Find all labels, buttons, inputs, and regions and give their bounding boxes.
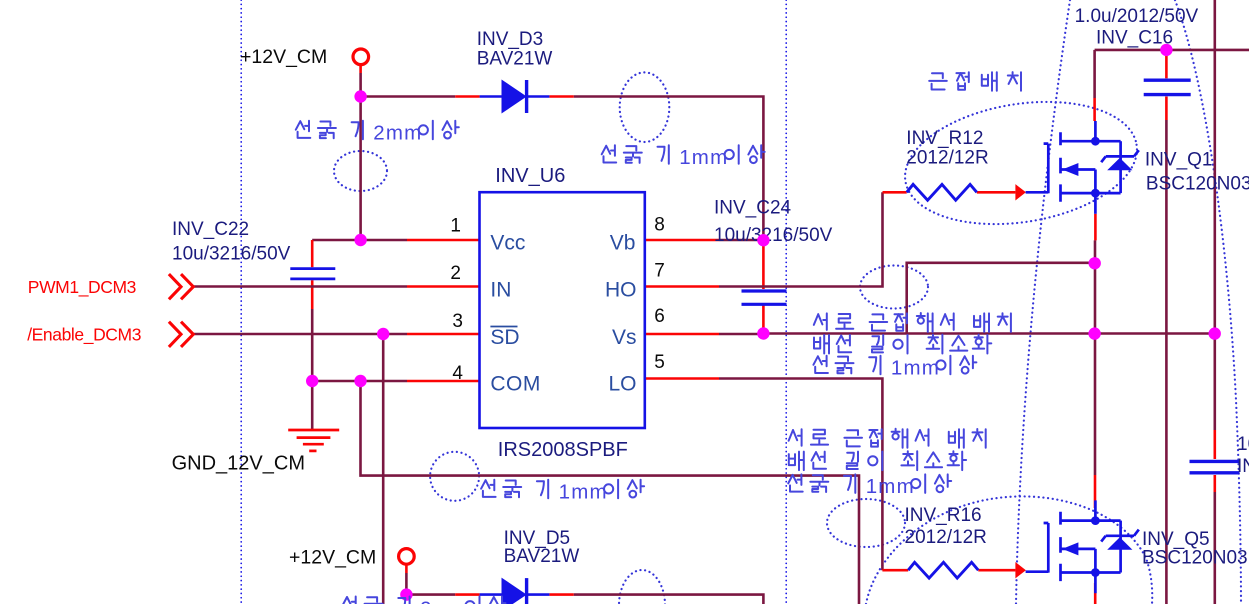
svg-text:Vcc: Vcc <box>490 232 525 255</box>
junction node 8 <box>1089 257 1101 269</box>
svg-text:/Enable_DCM3: /Enable_DCM3 <box>27 325 141 346</box>
+12V_CM terminal circle (bottom) <box>399 549 415 565</box>
wire pin6 Vs stub <box>645 333 719 336</box>
svg-text:8: 8 <box>654 215 665 236</box>
svg-text:Vb: Vb <box>610 232 636 255</box>
svg-text:1mm: 1mm <box>559 481 608 504</box>
wire COM net <box>312 380 407 383</box>
wire Q5 source down <box>1094 583 1097 604</box>
junction node 9 <box>1088 327 1100 339</box>
annotation block1 line3: line width 1mm or more <box>813 356 976 380</box>
op-amp / gate-driver IC U6 body <box>480 192 645 428</box>
svg-text:1: 1 <box>450 216 461 237</box>
wire switch node down to Q5 drain <box>1094 334 1097 475</box>
transistor Q5 INV_Q5 <box>1026 500 1139 593</box>
wire pin7 HO stub <box>645 285 719 288</box>
wire Vs loop up <box>907 263 1095 334</box>
capacitor C16 INV_C16 <box>1144 80 1191 94</box>
annotation: line width 1mm or more (near D3 net) <box>602 145 765 169</box>
dotted ellipse on COM branch wire <box>827 499 905 547</box>
wire PWM1_DCM3 to pin IN <box>194 285 408 288</box>
svg-text:10u/3216/50V: 10u/3216/50V <box>172 244 291 265</box>
input port /Enable_DCM3 <box>169 322 193 347</box>
svg-text:SD: SD <box>490 326 519 349</box>
svg-text:INV_C18: INV_C18 <box>1237 456 1249 477</box>
wire HO to R12 <box>883 191 907 194</box>
wire /Enable_DCM3 to pin SD <box>194 333 408 336</box>
wire pin8 Vb stub <box>645 239 719 242</box>
dotted partition line left <box>240 0 242 604</box>
svg-text:+12V_CM: +12V_CM <box>289 547 376 569</box>
wire D5 cathode net <box>549 593 573 596</box>
svg-text:2mm: 2mm <box>373 122 422 145</box>
svg-text:1mm: 1mm <box>891 357 940 380</box>
annotation: line width 2mm or more (bottom, clipped) <box>343 597 506 604</box>
annotation block2 line3: line width 1mm or more <box>788 474 951 498</box>
wire switch node Q1 source to Vs <box>1094 214 1097 241</box>
capacitor C22 INV_C22 <box>290 269 335 279</box>
annotation: line width 1mm or more (below IRS2008SPBF) <box>481 480 644 504</box>
wire /Enable vertical branch <box>382 334 385 604</box>
svg-text:BAV21W: BAV21W <box>504 546 580 567</box>
capacitor C18 (right edge) <box>1190 461 1240 472</box>
svg-text:INV_R12: INV_R12 <box>906 128 983 149</box>
svg-text:IRS2008SPBF: IRS2008SPBF <box>498 439 628 461</box>
dotted partition line right <box>785 0 787 604</box>
wire C16 top lead <box>1165 50 1168 78</box>
dotted ellipse (close placement) around R12 and Q1 <box>896 86 1146 239</box>
svg-text:GND_12V_CM: GND_12V_CM <box>172 452 305 474</box>
junction node 1 <box>354 90 366 102</box>
junction node 4 <box>377 328 389 340</box>
wire C16 bottom lead long drop <box>1165 97 1168 121</box>
wire D5 anode net <box>406 593 455 596</box>
annotation block1 line1: place close to each other <box>814 313 1011 332</box>
svg-text:COM: COM <box>490 373 541 396</box>
svg-text:1mm: 1mm <box>866 475 915 498</box>
svg-text:1.0u/2012/50V: 1.0u/2012/50V <box>1075 6 1199 27</box>
large dotted arc right <box>1175 0 1241 604</box>
dotted ellipse on diode D3 output wire <box>620 72 670 142</box>
svg-text:INV_U6: INV_U6 <box>495 165 565 187</box>
wire LO to R16 <box>882 569 908 572</box>
dotted ellipse around R16 and Q5 <box>866 496 1152 604</box>
svg-text:4: 4 <box>452 363 463 384</box>
annotation: place close together (근접배치) <box>929 72 1021 91</box>
svg-text:+12V_CM: +12V_CM <box>240 46 327 68</box>
svg-text:INV_R16: INV_R16 <box>905 505 982 526</box>
svg-text:INV_D3: INV_D3 <box>477 29 544 50</box>
svg-text:PWM1_DCM3: PWM1_DCM3 <box>28 277 136 298</box>
svg-text:INV_C22: INV_C22 <box>172 219 249 240</box>
wire R12 to gate arrow <box>977 191 1016 194</box>
wire right vertical bus <box>1214 0 1217 430</box>
diode D3 INV_D3 <box>480 80 550 114</box>
svg-text:2012/12R: 2012/12R <box>906 148 988 169</box>
svg-text:BSC120N03: BSC120N03 <box>1142 548 1248 569</box>
wire COM to ground <box>311 381 314 429</box>
wire +12V_CM drop to rail <box>359 65 362 74</box>
transistor Q1 INV_Q1 <box>1026 121 1139 214</box>
large dotted arc left <box>1016 0 1070 604</box>
svg-text:10u/3216/50V: 10u/3216/50V <box>714 225 833 246</box>
annotation block2 line1: place close to each other <box>789 429 986 448</box>
junction node 10 <box>1209 327 1221 339</box>
wire Vs rail <box>763 332 1214 335</box>
svg-text:2: 2 <box>450 263 461 284</box>
svg-text:1mm: 1mm <box>679 146 728 169</box>
junction node 12 <box>400 588 412 600</box>
wire C22 top lead <box>311 240 314 267</box>
+12V_CM terminal circle (top) <box>353 49 369 65</box>
red arrow into Q5 gate <box>1015 562 1026 578</box>
dotted circle below IRS2008SPBF <box>430 452 479 501</box>
wire D3 cathode net to Vb <box>549 95 573 98</box>
svg-text:Vs: Vs <box>612 326 637 349</box>
svg-text:2012/12R: 2012/12R <box>905 527 987 548</box>
wire C24 bottom lead <box>762 305 765 334</box>
svg-text:INV_C16: INV_C16 <box>1096 28 1173 49</box>
svg-text:7: 7 <box>654 261 665 282</box>
capacitor C24 INV_C24 <box>742 291 787 304</box>
wire C18 bottom lead <box>1214 475 1217 492</box>
wire +12V_CM bottom drop <box>405 564 408 574</box>
wire C24 top lead <box>762 240 765 289</box>
annotation: line width 2mm or more (top) <box>296 121 459 145</box>
ground symbol GND_12V_CM <box>288 430 339 451</box>
resistor R16 INV_R16 <box>908 562 978 578</box>
dotted circle on +12V_CM wire <box>334 151 387 191</box>
annotation block1 line2: minimize wiring length <box>814 335 991 354</box>
junction node 2 <box>354 234 366 246</box>
wire R16 to gate arrow <box>978 569 1015 572</box>
svg-text:INV_C24: INV_C24 <box>714 198 792 219</box>
svg-text:2mm: 2mm <box>420 597 469 604</box>
diode D5 INV_D5 <box>480 578 550 604</box>
annotation block2 line2: minimize wiring length <box>789 451 966 470</box>
junction node 6 <box>306 375 318 387</box>
red arrow into Q1 gate <box>1015 184 1026 200</box>
svg-text:10u/3216/50V: 10u/3216/50V <box>1237 434 1249 455</box>
wire top supply rail <box>1095 49 1249 52</box>
svg-text:IN: IN <box>490 279 511 302</box>
svg-text:6: 6 <box>654 306 665 327</box>
svg-text:3: 3 <box>452 311 463 332</box>
wire C22 bottom lead to COM <box>311 280 314 309</box>
wire Q1 drain up to rail <box>1093 50 1096 98</box>
dotted ellipse on diode D5 output wire <box>619 570 665 604</box>
dotted ellipse on HO wire jog <box>860 266 928 309</box>
wire pin5 LO net <box>645 377 719 380</box>
input port PWM1_DCM3 <box>169 274 193 299</box>
junction node 3 <box>757 234 769 246</box>
junction node 7 <box>354 375 366 387</box>
wire Vcc net <box>312 239 407 242</box>
junction node 5 <box>757 327 769 339</box>
svg-text:BSC120N03: BSC120N03 <box>1146 174 1249 195</box>
svg-text:LO: LO <box>608 373 636 396</box>
junction node 11 <box>1160 44 1172 56</box>
svg-text:5: 5 <box>654 352 665 373</box>
svg-text:BAV21W: BAV21W <box>477 49 553 70</box>
wire COM branch down and right <box>361 381 860 604</box>
resistor R12 INV_R12 <box>907 184 977 200</box>
wire D3 anode net <box>361 95 456 98</box>
svg-text:HO: HO <box>605 279 637 302</box>
svg-text:INV_Q1: INV_Q1 <box>1145 149 1213 170</box>
